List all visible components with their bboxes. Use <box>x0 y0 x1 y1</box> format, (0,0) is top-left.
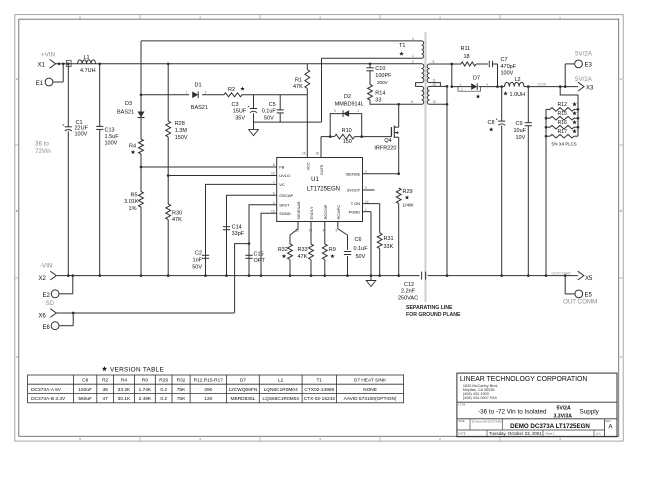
svg-text:16: 16 <box>315 152 319 156</box>
svg-text:-36 to -72 Vin to Isolated: -36 to -72 Vin to Isolated <box>478 408 547 415</box>
svg-text:C8: C8 <box>488 120 495 126</box>
svg-text:3: 3 <box>205 91 207 95</box>
svg-text:50V: 50V <box>192 265 202 271</box>
svg-text:R29: R29 <box>159 378 168 384</box>
svg-text:10uF: 10uF <box>514 128 527 134</box>
svg-text:3VOUT: 3VOUT <box>347 188 361 193</box>
svg-text:C10: C10 <box>375 66 385 72</box>
svg-text:R16: R16 <box>558 120 568 126</box>
svg-text:-VIN: -VIN <box>40 263 52 270</box>
svg-text:R17: R17 <box>558 129 568 135</box>
svg-text:CTX02-14989: CTX02-14989 <box>304 387 334 393</box>
svg-text:C: C <box>620 355 622 359</box>
svg-text:8: 8 <box>273 163 275 167</box>
svg-text:1: 1 <box>412 54 414 58</box>
svg-text:ISENSE: ISENSE <box>346 171 361 176</box>
svg-text:390: 390 <box>204 387 212 393</box>
svg-text:13: 13 <box>309 229 313 233</box>
svg-text:4: 4 <box>323 229 325 233</box>
svg-text:15: 15 <box>271 210 275 214</box>
svg-text:SGND: SGND <box>279 211 291 216</box>
svg-text:B: B <box>16 209 18 213</box>
svg-text:(408) 434-0507 FAX: (408) 434-0507 FAX <box>463 396 498 400</box>
svg-text:R29: R29 <box>403 189 413 195</box>
svg-text:R12: R12 <box>558 102 568 108</box>
svg-text:of 1: of 1 <box>596 432 601 436</box>
svg-text:L2: L2 <box>278 378 284 384</box>
svg-text:75K: 75K <box>177 387 186 393</box>
svg-text:L2: L2 <box>515 77 521 83</box>
svg-text:1.0UH: 1.0UH <box>510 92 526 98</box>
svg-text:VC: VC <box>279 182 285 187</box>
svg-text:VCC: VCC <box>305 162 310 171</box>
svg-text:X6: X6 <box>39 314 47 320</box>
svg-text:3: 3 <box>273 201 275 205</box>
svg-text:IRFR220: IRFR220 <box>374 146 396 152</box>
svg-text:DC373A-B 3.3V: DC373A-B 3.3V <box>31 396 66 402</box>
svg-text:D1: D1 <box>195 82 202 88</box>
svg-text:L1: L1 <box>84 55 90 61</box>
svg-text:R1: R1 <box>295 77 302 83</box>
svg-text:Q4: Q4 <box>384 138 391 144</box>
svg-text:50V: 50V <box>356 254 366 260</box>
svg-text:1%: 1% <box>129 206 137 212</box>
svg-text:C8: C8 <box>82 378 88 384</box>
svg-text:33K: 33K <box>384 244 394 250</box>
svg-text:100V: 100V <box>501 71 514 77</box>
svg-text:3.01K: 3.01K <box>124 199 139 205</box>
svg-text:UVLO: UVLO <box>279 173 290 178</box>
svg-text:SD: SD <box>46 300 55 307</box>
svg-text:12: 12 <box>433 100 437 104</box>
svg-text:35V: 35V <box>235 116 245 122</box>
svg-text:LT1725EGN: LT1725EGN <box>307 187 340 193</box>
svg-text:E1: E1 <box>36 81 44 87</box>
svg-text:0.2: 0.2 <box>160 396 167 402</box>
svg-text:MBRD835L: MBRD835L <box>231 396 256 402</box>
svg-text:R31: R31 <box>384 236 394 242</box>
svg-text:FB: FB <box>279 165 284 170</box>
svg-text:R9: R9 <box>329 247 336 253</box>
svg-text:R12,R15-R17: R12,R15-R17 <box>194 378 224 384</box>
svg-text:OUTCOMM: OUTCOMM <box>552 271 571 275</box>
svg-text:100V: 100V <box>105 140 118 146</box>
svg-text:1.3M: 1.3M <box>175 128 188 134</box>
svg-text:Supply: Supply <box>580 408 600 415</box>
svg-text:1: 1 <box>186 91 188 95</box>
svg-text:CTX-02-15242: CTX-02-15242 <box>304 396 336 402</box>
svg-text:R4: R4 <box>121 378 127 384</box>
svg-text:150: 150 <box>343 139 352 145</box>
svg-text:Tuesday, October 23, 2001: Tuesday, October 23, 2001 <box>489 431 542 436</box>
svg-text:X5: X5 <box>585 276 593 282</box>
svg-text:C7: C7 <box>501 57 508 63</box>
svg-text:NONE: NONE <box>363 387 377 393</box>
svg-text:1.74K: 1.74K <box>139 387 152 393</box>
svg-text:0.1uF: 0.1uF <box>262 109 277 115</box>
svg-text:R11: R11 <box>461 46 471 52</box>
svg-text:D3: D3 <box>125 101 132 107</box>
svg-text:250VAC: 250VAC <box>398 295 418 301</box>
svg-text:LQS66C1R0M04: LQS66C1R0M04 <box>262 396 299 402</box>
svg-text:5V/2A: 5V/2A <box>557 406 571 412</box>
svg-text:MMBD914L: MMBD914L <box>335 102 364 108</box>
svg-text:200V: 200V <box>377 80 389 85</box>
svg-text:D2: D2 <box>344 94 351 100</box>
svg-text:5% X4 PLCS: 5% X4 PLCS <box>552 142 577 147</box>
svg-text:C: C <box>16 355 18 359</box>
svg-text:150uF: 150uF <box>78 387 92 393</box>
svg-text:30.1K: 30.1K <box>118 396 131 402</box>
svg-text:R10: R10 <box>342 128 352 134</box>
svg-text:R5: R5 <box>130 193 137 199</box>
svg-text:X2: X2 <box>39 276 47 282</box>
svg-text:75K: 75K <box>177 396 186 402</box>
svg-text:ENDLY: ENDLY <box>309 206 314 219</box>
svg-text:15UF: 15UF <box>233 109 247 115</box>
svg-text:E6: E6 <box>43 325 51 331</box>
svg-text:15: 15 <box>302 152 306 156</box>
svg-text:47K: 47K <box>293 84 303 90</box>
svg-text:50V: 50V <box>264 116 274 122</box>
svg-text:4.7UH: 4.7UH <box>80 68 96 74</box>
svg-text:E2: E2 <box>43 293 51 299</box>
svg-text:R32: R32 <box>278 247 288 253</box>
svg-text:SFST: SFST <box>279 202 290 207</box>
svg-text:BAS21: BAS21 <box>191 105 208 111</box>
svg-text:Sheet 1: Sheet 1 <box>545 432 555 436</box>
svg-text:2.2nF: 2.2nF <box>401 289 416 295</box>
svg-text:10V: 10V <box>516 135 526 141</box>
svg-text:LQN6C1R0M04: LQN6C1R0M04 <box>264 387 298 393</box>
svg-text:MINENAB: MINENAB <box>296 201 301 220</box>
svg-text:10: 10 <box>433 83 437 87</box>
svg-text:C3: C3 <box>231 102 238 108</box>
svg-text:5V2A: 5V2A <box>538 82 547 86</box>
svg-text:X3: X3 <box>586 86 594 92</box>
svg-text:AAVID 573100(OPTION): AAVID 573100(OPTION) <box>344 396 397 402</box>
svg-text:150V: 150V <box>175 135 188 141</box>
svg-text:R33: R33 <box>298 247 308 253</box>
svg-text:BAS21: BAS21 <box>117 109 134 115</box>
svg-text:470pF: 470pF <box>501 64 517 70</box>
svg-text:D7 HEAT SINK: D7 HEAT SINK <box>354 378 387 384</box>
svg-text:39: 39 <box>102 387 108 393</box>
svg-text:0.1uF: 0.1uF <box>354 246 369 252</box>
svg-text:PGND: PGND <box>349 209 361 214</box>
svg-text:10: 10 <box>271 172 275 176</box>
svg-text:C14: C14 <box>232 225 242 231</box>
svg-text:R2: R2 <box>228 87 235 93</box>
svg-text:U1: U1 <box>311 177 319 183</box>
svg-text:5V/2A: 5V/2A <box>575 51 593 58</box>
svg-text:LINEAR TECHNOLOGY CORPORATION: LINEAR TECHNOLOGY CORPORATION <box>460 376 588 383</box>
svg-text:560uF: 560uF <box>78 396 92 402</box>
svg-text:3: 3 <box>334 109 336 113</box>
svg-text:+VIN: +VIN <box>41 52 55 59</box>
svg-text:VERSION TABLE: VERSION TABLE <box>110 366 164 373</box>
svg-text:C9: C9 <box>516 121 523 127</box>
svg-text:E5: E5 <box>585 293 593 299</box>
svg-text:36 to: 36 to <box>35 141 49 148</box>
svg-text:R32: R32 <box>177 378 186 384</box>
svg-text:47K: 47K <box>172 217 182 223</box>
svg-text:LT/34: LT/34 <box>458 403 465 407</box>
svg-text:D7: D7 <box>240 378 246 384</box>
svg-text:5: 5 <box>336 229 338 233</box>
svg-text:47K: 47K <box>298 254 308 260</box>
svg-text:2.49K: 2.49K <box>139 396 152 402</box>
svg-text:C12: C12 <box>404 282 414 288</box>
svg-text:1nF: 1nF <box>193 258 203 264</box>
svg-text:33.2K: 33.2K <box>118 387 131 393</box>
svg-text:OSCAP: OSCAP <box>279 193 293 198</box>
svg-text:100PF: 100PF <box>375 73 392 79</box>
svg-text:DC373A-A 5V: DC373A-A 5V <box>31 387 62 393</box>
svg-text:FOR GROUND PLANE: FOR GROUND PLANE <box>406 312 461 318</box>
svg-text:E3: E3 <box>585 62 593 68</box>
svg-text:R9: R9 <box>142 378 148 384</box>
svg-text:7: 7 <box>273 181 275 185</box>
svg-text:100V: 100V <box>75 131 88 137</box>
svg-text:1.5uF: 1.5uF <box>105 134 120 140</box>
svg-text:C15: C15 <box>254 252 264 258</box>
svg-text:C5: C5 <box>269 102 276 108</box>
svg-text:2: 2 <box>412 60 414 64</box>
svg-text:RCMPC: RCMPC <box>336 205 341 220</box>
svg-text:A: A <box>620 77 622 81</box>
svg-text:D7: D7 <box>473 76 480 82</box>
svg-text:120: 120 <box>204 396 212 402</box>
svg-text:5V/2A: 5V/2A <box>575 76 593 83</box>
svg-text:R4: R4 <box>129 144 136 150</box>
svg-text:47: 47 <box>102 396 108 402</box>
svg-text:B: B <box>620 209 622 213</box>
svg-text:R2: R2 <box>102 378 108 384</box>
svg-text:T ON: T ON <box>351 201 361 206</box>
svg-text:R28: R28 <box>175 121 185 127</box>
svg-text:C6: C6 <box>355 237 362 243</box>
svg-text:SIZE: SIZE <box>458 419 464 423</box>
svg-text:OPT: OPT <box>254 258 266 264</box>
svg-text:DATE: DATE <box>458 431 465 435</box>
svg-text:A: A <box>16 77 18 81</box>
svg-text:6: 6 <box>273 192 275 196</box>
svg-text:12CWQ06FN: 12CWQ06FN <box>229 387 258 393</box>
svg-text:DEMO DC373A LT1725EGN: DEMO DC373A LT1725EGN <box>510 423 590 430</box>
svg-text:18: 18 <box>464 54 470 60</box>
svg-text:1: 1 <box>357 109 359 113</box>
svg-text:SEPARATING LINE: SEPARATING LINE <box>406 305 453 311</box>
svg-text:X1: X1 <box>38 62 46 68</box>
svg-text:33pF: 33pF <box>232 231 245 237</box>
svg-text:R15: R15 <box>558 111 568 117</box>
svg-text:ROCMP: ROCMP <box>323 204 328 219</box>
svg-text:0.2: 0.2 <box>160 387 167 393</box>
svg-text:20-Dxxx-05 DC373-R2: 20-Dxxx-05 DC373-R2 <box>472 420 503 424</box>
svg-text:C13: C13 <box>105 127 115 133</box>
svg-text:GATE: GATE <box>319 164 324 175</box>
svg-text:OUT COMM: OUT COMM <box>563 298 597 305</box>
svg-text:R14: R14 <box>375 90 385 96</box>
svg-text:6: 6 <box>411 100 413 104</box>
svg-text:33: 33 <box>375 97 381 103</box>
svg-text:4: 4 <box>412 37 414 41</box>
svg-text:9: 9 <box>433 60 435 64</box>
svg-text:72Vin: 72Vin <box>35 148 51 155</box>
svg-text:1/4W: 1/4W <box>403 203 414 208</box>
svg-text:C2: C2 <box>195 251 202 257</box>
svg-text:T1: T1 <box>316 378 322 384</box>
svg-text:T1: T1 <box>399 43 405 49</box>
svg-text:R30: R30 <box>172 210 182 216</box>
